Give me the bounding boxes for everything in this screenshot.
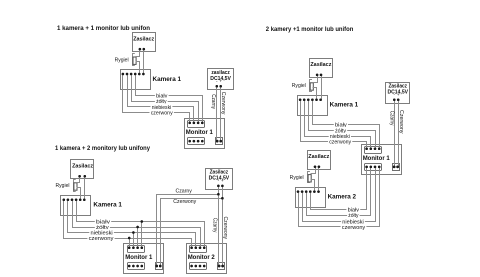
power connector pins of Monitor 1 (diagram 2) — [155, 265, 158, 268]
wire label (diagram 1) — [155, 92, 169, 99]
svg-text:Zasilacz: Zasilacz — [310, 62, 331, 68]
svg-text:Zasilacz: Zasilacz — [72, 163, 93, 169]
bottom connector of Monitor 1 (diagram 3) — [365, 164, 382, 171]
terminal dots of Kamera 1 (diagram 1) — [122, 73, 125, 76]
svg-text:Rygiel: Rygiel — [292, 83, 306, 89]
svg-text:Czerwony: Czerwony — [220, 92, 226, 115]
wire black DC- to Monitor 1 power pin 1 (diagram 3) — [394, 100, 396, 167]
svg-text:1 kamera + 2 monitory lub unif: 1 kamera + 2 monitory lub unifony — [55, 146, 151, 152]
wire niebieski camera pin 2 to monitor pin 2 (diagram 1) — [128, 75, 194, 123]
svg-text:Zasilacz: Zasilacz — [133, 36, 154, 42]
monitor box Monitor 1 (diagram 3) — [362, 145, 402, 175]
svg-text:Kamera 1: Kamera 1 — [153, 76, 182, 83]
wire red DC+ down to Monitor 2 power pin 2 (diagram 2) — [222, 186, 224, 267]
wire label (diagram 1) — [151, 104, 173, 111]
power connector of Monitor 1 (diagram 3) — [393, 164, 400, 171]
camera box Kamera 1 (diagram 2) — [61, 196, 91, 216]
svg-text:czerwony: czerwony — [342, 225, 365, 231]
power connector pins of Monitor 2 (diagram 2) — [218, 265, 221, 268]
wire Kamera 1 pin 1 to Monitor 1 top pin 1 (diagram 3) — [301, 100, 367, 149]
branch wire down to Monitor 1 pin 1 (diagram 2) — [129, 239, 131, 248]
terminal and junction dot overlays (redrawn above wires) — [139, 48, 142, 51]
top connector pins of Monitor 2 (diagram 2) — [190, 247, 193, 250]
wire czerwony camera pin 1 to monitor pin 1 (diagram 1) — [123, 75, 190, 123]
camera box Kamera 1 (diagram 3 upper) — [298, 96, 328, 116]
svg-text:+: + — [397, 92, 400, 97]
wire Kamera 1 pin 3 to Monitor 1 top pin 3 (diagram 3) — [309, 100, 376, 149]
power connector pins of Monitor 1 (diagram 1) — [216, 140, 219, 143]
power supply box Zasilacz (diagram 3 upper) — [310, 59, 333, 78]
wire camera pin 3 to Monitor 2 pin 3 (diagram 2) — [73, 200, 201, 248]
svg-text:+: + — [221, 178, 224, 183]
svg-text:Czerwony: Czerwony — [398, 110, 404, 134]
wire Zasilacz left terminal to Rygiel (diagram 1) — [136, 50, 140, 57]
power supply box Zasilacz (diagram 1) — [133, 33, 156, 52]
svg-text:Monitor 1: Monitor 1 — [186, 129, 214, 136]
wire label lower (diagram 3) — [347, 212, 360, 219]
monitor box Monitor 1 (diagram 2) — [124, 244, 164, 274]
terminal dots of DC supply (diagram 2) — [217, 185, 220, 188]
svg-text:Kamera 1: Kamera 1 — [330, 102, 359, 109]
top connector of Monitor 2 (diagram 2) — [190, 246, 207, 253]
wire label (diagram 1) — [150, 109, 174, 116]
wire Kamera 2 pin 1 to Monitor 1 bottom pin 4 (diagram 3) — [299, 167, 380, 227]
junction dot on wire above Monitor 1 pin 1 (diagram 2) — [128, 237, 131, 240]
svg-text:Rygiel: Rygiel — [56, 183, 70, 189]
power supply box Zasilacz DC14,5V (diagram 2) — [206, 169, 233, 190]
junction dot on wire above Monitor 1 pin 3 (diagram 2) — [136, 226, 139, 229]
wire Zasilacz right terminal to camera pin 6 (diagram 3 lower) — [318, 167, 320, 192]
wire label upper (diagram 3) — [329, 133, 351, 140]
power connector pins over wires (diagram 2) — [155, 265, 158, 268]
bottom connector pins of Monitor 1 (diagram 1) — [188, 140, 191, 143]
wire bialy camera pin 4 to monitor pin 4 (diagram 1) — [136, 75, 203, 123]
wire label upper (diagram 3) — [328, 138, 352, 145]
svg-text:Monitor 1: Monitor 1 — [363, 155, 391, 162]
wire label lower (diagram 3) — [341, 218, 365, 225]
bottom connector of Monitor 2 (diagram 2) — [190, 263, 207, 270]
wire camera pin 2 to Monitor 2 pin 2 (diagram 2) — [68, 200, 196, 248]
terminal dots of Zasilacz (diagram 1) — [139, 48, 142, 51]
electric strike symbol Rygiel (diagram 1) — [133, 54, 135, 66]
top connector pins of Monitor 1 (diagram 1) — [188, 122, 191, 125]
wire black DC- to monitor power pin 1 (diagram 1) — [216, 87, 218, 142]
svg-text:Rygiel: Rygiel — [115, 57, 129, 63]
power supply box Zasilacz (diagram 2) — [71, 160, 94, 179]
wire Kamera 2 pin 2 to Monitor 1 bottom pin 3 (diagram 3) — [303, 167, 376, 222]
svg-text:czerwony: czerwony — [329, 140, 351, 146]
terminal dots of Kamera 1 (diagram 3 upper) — [299, 99, 302, 102]
power supply box Zasilacz DC14,5V (diagram 3) — [386, 83, 410, 104]
terminal dots of DC supply (diagram 3) — [393, 98, 396, 101]
power supply box Zasilacz (diagram 3 lower) — [308, 151, 331, 170]
electric strike symbol Rygiel (diagram 2) — [74, 180, 76, 192]
wire label (diagram 2) — [89, 229, 114, 236]
wire Zasilacz right terminal to camera pin 6 (diagram 2) — [84, 177, 86, 200]
svg-text:Monitor 1: Monitor 1 — [125, 254, 153, 261]
top connector of Monitor 1 (diagram 3) — [365, 147, 382, 154]
terminal dots of DC supply (diagram 1) — [216, 85, 219, 88]
svg-text:czerwony: czerwony — [89, 236, 114, 242]
bottom connector of Monitor 1 (diagram 2) — [128, 263, 145, 270]
wire Kamera 2 pin 4 to Monitor 1 bottom pin 1 (diagram 3) — [311, 167, 367, 210]
camera box Kamera 1 (diagram 1) — [121, 70, 151, 90]
svg-text:Monitor 2: Monitor 2 — [188, 254, 216, 261]
wire label lower (diagram 3) — [346, 206, 360, 213]
wire Zasilacz left terminal to Rygiel (diagram 3 lower) — [311, 167, 316, 174]
branch wire down to Monitor 1 pin 2 (diagram 2) — [133, 233, 135, 248]
wire Rygiel to camera pin 5 (diagram 2) — [77, 188, 81, 200]
svg-text:Czerwony: Czerwony — [222, 217, 228, 240]
electric strike symbol Rygiel (diagram 3 upper) — [310, 80, 313, 92]
bottom connector pins of Monitor 2 (diagram 2) — [190, 265, 193, 268]
power connector of Monitor 1 (diagram 1) — [216, 138, 223, 145]
svg-text:Czarny: Czarny — [210, 94, 216, 109]
junction dot on wire above Monitor 1 pin 4 (diagram 2) — [141, 220, 144, 223]
wire zolty camera pin 3 to monitor pin 3 (diagram 1) — [132, 75, 199, 123]
wire camera pin 1 to Monitor 2 pin 1 (diagram 2) — [64, 200, 192, 248]
wire Kamera 1 pin 2 to Monitor 1 top pin 2 (diagram 3) — [305, 100, 371, 149]
svg-text:Rygiel: Rygiel — [290, 175, 304, 181]
wire Rygiel to camera pin 5 (diagram 3 upper) — [313, 88, 317, 100]
wire red DC+ to Monitor 1 power pin 2 (diagram 3) — [398, 100, 400, 167]
branch wire down to Monitor 1 pin 4 (diagram 2) — [141, 222, 143, 248]
wire Zasilacz right terminal to camera pin 6 (diagram 3 upper) — [321, 75, 322, 100]
wire label upper (diagram 3) — [334, 127, 347, 134]
power supply box Zasilacz DC14,5V (diagram 1) — [208, 69, 234, 90]
power connector of Monitor 2 (diagram 2) — [218, 263, 225, 270]
svg-text:1 kamera + 1 monitor lub unifo: 1 kamera + 1 monitor lub unifon — [57, 26, 150, 32]
terminal dots of Zasilacz (diagram 3 upper) — [316, 74, 319, 77]
monitor box Monitor 2 (diagram 2) — [187, 244, 227, 274]
svg-text:Zasilacz: Zasilacz — [308, 154, 329, 160]
wire label (diagram 2) — [95, 224, 110, 231]
camera box Kamera 2 (diagram 3 lower) — [296, 188, 326, 208]
svg-text:Czerwony: Czerwony — [173, 199, 196, 205]
terminal dots of Kamera 2 (diagram 3 lower) — [297, 190, 300, 193]
power connector of Monitor 1 (diagram 2) — [156, 263, 163, 270]
bottom connector of Monitor 1 (diagram 1) — [188, 138, 205, 145]
wire red DC+ to monitor power pin 2 (diagram 1) — [220, 87, 222, 142]
top connector of Monitor 1 (diagram 2) — [128, 246, 145, 253]
wire Rygiel to camera pin 5 (diagram 1) — [136, 62, 140, 75]
svg-text:+: + — [219, 79, 222, 84]
wire Rygiel to camera pin 5 (diagram 3 lower) — [311, 180, 315, 192]
wire Zasilacz left terminal to Rygiel (diagram 2) — [76, 177, 80, 183]
branch wire Czerwony to Monitor 1 power pin 2 (diagram 2) — [161, 199, 223, 267]
wire camera pin 4 to Monitor 2 pin 4 (diagram 2) — [77, 200, 205, 248]
electric strike symbol Rygiel (diagram 3 lower) — [308, 172, 310, 183]
wire Kamera 2 pin 3 to Monitor 1 bottom pin 2 (diagram 3) — [307, 167, 371, 216]
wire Kamera 1 pin 4 to Monitor 1 top pin 4 (diagram 3) — [313, 100, 380, 149]
wire label lower (diagram 3) — [341, 224, 367, 231]
bottom connector pins of Monitor 1 (diagram 2) — [128, 265, 131, 268]
junction dots on DC wires (diagram 2) — [217, 193, 220, 196]
svg-text:Czarny: Czarny — [212, 218, 218, 233]
top connector pins of Monitor 1 (diagram 2) — [128, 247, 131, 250]
svg-text:Czarny: Czarny — [388, 111, 394, 126]
wire label (diagram 2) — [95, 218, 111, 225]
branch wire Czarny to Monitor 1 power pin 1 (diagram 2) — [157, 195, 219, 267]
top connector of Monitor 1 (diagram 1) — [188, 121, 205, 128]
wire label upper (diagram 3) — [334, 121, 348, 128]
svg-text:Czarny: Czarny — [176, 188, 192, 194]
wire label (diagram 1) — [155, 98, 168, 105]
monitor box Monitor 1 (diagram 1) — [185, 119, 225, 149]
wire black DC- down to Monitor 2 power pin 1 (diagram 2) — [218, 186, 220, 267]
junction dot on wire above Monitor 1 pin 2 (diagram 2) — [132, 231, 135, 234]
bottom connector pins of Monitor 1 (diagram 3) — [365, 166, 368, 169]
svg-text:czerwony: czerwony — [151, 111, 173, 117]
wire label (diagram 2) — [87, 235, 114, 242]
terminal dots of Zasilacz (diagram 3 lower) — [314, 165, 317, 168]
svg-text:2 kamery +1 monitor lub unifon: 2 kamery +1 monitor lub unifon — [266, 27, 354, 33]
power connector pins of Monitor 1 (diagram 3) — [393, 166, 396, 169]
terminal dots of Zasilacz (diagram 2) — [78, 175, 81, 178]
svg-text:Kamera 2: Kamera 2 — [328, 194, 357, 201]
wire Zasilacz left terminal to Rygiel (diagram 3 upper) — [313, 75, 318, 83]
terminal dots of Kamera 1 (diagram 2) — [63, 199, 66, 202]
branch wire down to Monitor 1 pin 3 (diagram 2) — [137, 228, 139, 248]
svg-text:Kamera 1: Kamera 1 — [93, 202, 122, 209]
power connector pins over wires (diagram 3) — [393, 166, 396, 169]
power connector pins over wires (diagram 1) — [216, 140, 219, 143]
top connector pins of Monitor 1 (diagram 3) — [365, 147, 368, 150]
wire Zasilacz right terminal to camera pin 6 (diagram 1) — [143, 50, 145, 75]
